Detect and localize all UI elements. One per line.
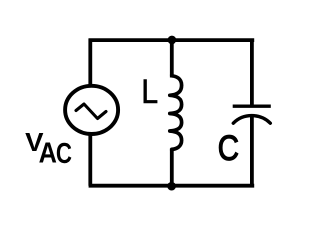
wire inductor branch bottom	[170, 149, 174, 186]
wire top	[89, 38, 255, 42]
svg-text:L: L	[141, 73, 158, 111]
svg-text:A: A	[39, 138, 57, 170]
label L	[141, 73, 158, 111]
junction dot top	[168, 36, 177, 45]
svg-text:C: C	[218, 128, 239, 168]
svg-text:C: C	[56, 138, 72, 170]
wire capacitor branch top	[250, 39, 254, 105]
label C	[218, 128, 239, 168]
junction dot bottom	[167, 182, 176, 191]
label VAC	[25, 129, 72, 170]
wire left branch lower	[88, 133, 92, 186]
wire inductor branch top	[170, 40, 174, 78]
AC source V1	[65, 86, 118, 134]
wire bottom	[89, 184, 255, 188]
wire left branch upper	[88, 39, 92, 88]
capacitor C1	[233, 106, 271, 123]
wire capacitor branch bottom	[250, 116, 254, 186]
inductor L1	[170, 75, 182, 151]
